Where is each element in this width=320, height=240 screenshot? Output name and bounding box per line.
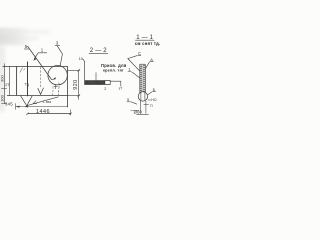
section legs — [140, 101, 142, 114]
svg-text:А: А — [150, 57, 153, 62]
svg-text:см снят тд.: см снят тд. — [135, 41, 160, 46]
V arrowhead under dashed line — [38, 88, 44, 95]
big diagonal brace line — [27, 46, 51, 80]
angle mark — [33, 101, 37, 104]
svg-text:Прихв. для: Прихв. для — [101, 63, 127, 68]
svg-text:Ø60: Ø60 — [134, 109, 143, 114]
section 1-1 underline — [135, 39, 154, 41]
section 2-2 hatched bar — [85, 81, 111, 85]
svg-text:С: С — [138, 51, 141, 56]
shallow leader from notch — [28, 97, 59, 106]
svg-text:крепл. тяг: крепл. тяг — [103, 69, 124, 73]
svg-text:2 — 2: 2 — 2 — [90, 48, 107, 54]
svg-text:300: 300 — [0, 75, 5, 82]
notch apex arrowhead — [25, 105, 28, 108]
arrow hook at diagonal end — [52, 78, 56, 80]
small cross below circle — [55, 85, 57, 89]
svg-text:Тд: Тд — [25, 82, 30, 86]
bar right leader hook — [110, 81, 121, 86]
svg-text:П: П — [150, 104, 153, 108]
leader from note text to bar — [95, 72, 97, 80]
right dim extensions — [68, 70, 80, 72]
section 2-2 underline — [89, 52, 108, 54]
short dim pointer line — [131, 110, 140, 112]
section 1-1 vertical bar — [139, 64, 141, 92]
bottom extension line with left arrow — [16, 106, 69, 108]
svg-text:10: 10 — [79, 57, 83, 61]
bottom V notch — [21, 96, 33, 106]
left dimension line 1 — [4, 64, 6, 105]
label 1 underline and leader — [128, 70, 131, 72]
inner flange edge — [16, 67, 18, 96]
bar hatch — [140, 65, 145, 92]
right vertical dimension line — [78, 70, 80, 99]
second faint hidden line — [52, 87, 54, 96]
small tick at top — [20, 68, 23, 73]
svg-text:2Т: 2Т — [5, 83, 10, 87]
small tick near legs — [144, 104, 149, 106]
balloon 1 flag line — [38, 52, 47, 54]
svg-text:НО: НО — [151, 98, 157, 102]
balloon 3 leader — [57, 46, 62, 66]
plate bottom seam — [7, 95, 68, 97]
left dimension line 2 — [9, 66, 11, 95]
bottom overall dimension line 1446 — [28, 113, 71, 115]
texts — [0, 35, 160, 115]
plate left edge — [27, 62, 29, 97]
svg-text:1446: 1446 — [36, 109, 50, 115]
dashed centerline vertical — [40, 67, 42, 89]
label HO leader — [148, 99, 151, 101]
svg-text:345: 345 — [5, 101, 13, 106]
left view: top edge line of plate with left extension — [3, 66, 69, 68]
bottom ball of section — [138, 92, 147, 101]
label A underline and leader — [150, 60, 154, 62]
label C underline and leader — [138, 54, 141, 56]
label 5 leader — [127, 101, 131, 103]
svg-text:1 зва: 1 зва — [43, 100, 52, 104]
scan smudge top-left — [0, 28, 50, 112]
balloon 5 — [24, 48, 29, 50]
svg-text:Б: Б — [153, 87, 156, 92]
svg-text:920: 920 — [73, 79, 79, 89]
label B leader — [152, 91, 156, 93]
svg-text:300: 300 — [0, 94, 5, 101]
label 10 leader — [84, 61, 86, 80]
detail circle — [48, 66, 67, 85]
svg-text:2: 2 — [104, 87, 106, 91]
plate right edge — [67, 67, 69, 108]
base dimension line — [136, 114, 148, 116]
wavy hidden line below circle — [57, 83, 60, 96]
svg-text:зТ: зТ — [119, 86, 123, 90]
